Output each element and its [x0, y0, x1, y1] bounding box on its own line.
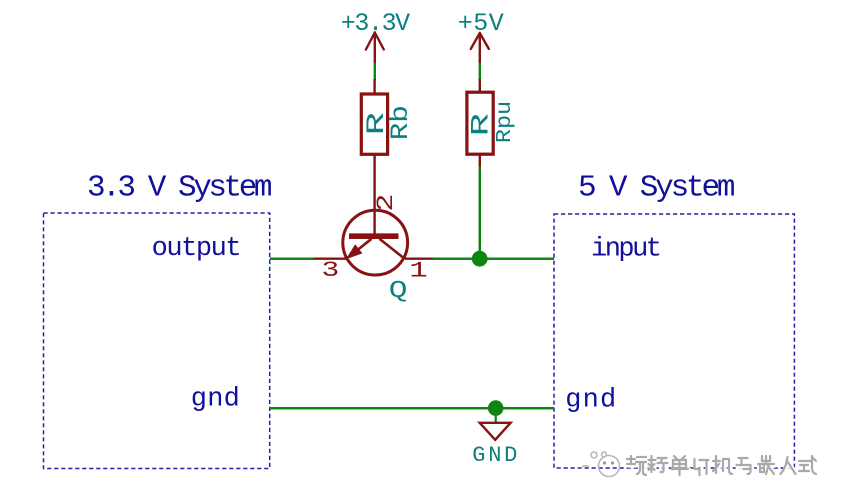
resistor Rpu — [467, 79, 493, 167]
svg-text:Q: Q — [389, 278, 408, 305]
ground symbol — [480, 423, 511, 440]
svg-text:Rb: Rb — [387, 105, 415, 140]
wire Rpu to input net — [479, 165, 482, 259]
svg-text:gnd: gnd — [191, 384, 238, 414]
junction gnd — [488, 400, 504, 416]
wire +3.3V to Rb — [374, 60, 376, 80]
watermark text — [628, 457, 817, 476]
svg-text:1: 1 — [409, 259, 427, 284]
junction input net — [472, 251, 488, 267]
emitter arrow of Q — [346, 244, 363, 259]
watermark logo — [581, 452, 620, 477]
transistor Q — [314, 210, 433, 275]
svg-text:Rpu: Rpu — [492, 101, 517, 143]
svg-text:output: output — [152, 234, 240, 264]
resistor Rb — [361, 79, 387, 236]
svg-text:input: input — [591, 235, 660, 265]
power +5V — [471, 33, 489, 62]
wire Q pin1 to input — [432, 257, 554, 260]
svg-text:+5V: +5V — [458, 9, 504, 38]
wire gnd stub — [495, 408, 497, 422]
svg-text:5 V System: 5 V System — [578, 171, 735, 206]
wire +5V to Rpu — [479, 60, 481, 80]
box 3.3V system — [44, 213, 270, 469]
svg-text:2: 2 — [374, 194, 400, 212]
wire gnd — [270, 407, 554, 410]
svg-text:3: 3 — [322, 258, 340, 283]
wire output to Q pin3 — [270, 257, 314, 260]
svg-text:gnd: gnd — [565, 385, 614, 415]
svg-text:GND: GND — [472, 443, 517, 468]
power +3.3V — [366, 33, 384, 63]
svg-text:+3.3V: +3.3V — [341, 9, 410, 38]
box 5V system — [554, 214, 794, 468]
svg-text:3.3 V System: 3.3 V System — [87, 171, 272, 206]
